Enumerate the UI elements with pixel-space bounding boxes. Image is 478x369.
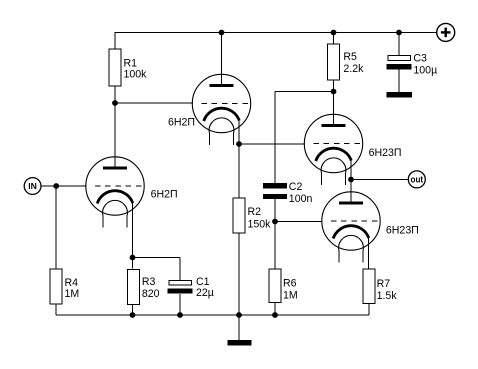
wire node D to tube U2a grid (239, 143, 305, 145)
wire R4 bottom lead (55, 304, 57, 315)
node R3 bottom junction (130, 312, 136, 318)
wire R1 top lead (114, 33, 116, 50)
svg-text:150k: 150k (248, 218, 272, 230)
wire node G to R3 top (132, 258, 134, 269)
wire R5 top lead (333, 33, 335, 45)
svg-text:1.5k: 1.5k (377, 290, 398, 302)
node A junction (112, 100, 118, 106)
triode U2a (6N23P section) (304, 114, 362, 185)
svg-text:2.2k: 2.2k (343, 63, 364, 75)
svg-text:out: out (411, 175, 424, 186)
wire R2 bottom to bottom rail (238, 233, 240, 315)
wire node B left to C2 branch (275, 91, 334, 93)
wire node E to out terminal (351, 179, 408, 181)
wire R6 bottom lead (274, 302, 276, 315)
wire C1 top lead (179, 258, 181, 281)
wire C2 bottom plate to node C (274, 199, 276, 222)
wire node D to R2 top (238, 144, 240, 198)
svg-text:6Н23П: 6Н23П (386, 225, 419, 237)
svg-text:22µ: 22µ (196, 287, 214, 299)
svg-text:100µ: 100µ (413, 64, 437, 76)
node D junction (236, 141, 242, 147)
node R6 bottom junction (272, 312, 278, 318)
resistor R3 (128, 270, 140, 305)
wire top rail V+ (115, 32, 438, 34)
node R5 top junction (331, 30, 337, 36)
resistor R1 (109, 49, 121, 86)
wire bottom rail (56, 314, 369, 316)
wire node A down to tube U1a anode (114, 103, 116, 168)
wire node F to tube U1a grid (56, 185, 86, 187)
capacitor C2 (263, 183, 287, 199)
svg-text:6Н23П: 6Н23П (369, 147, 402, 159)
wire R5 bottom lead to node B (333, 80, 335, 92)
wire R1 bottom lead to node A (114, 86, 116, 104)
wire node C down to R6 top (274, 222, 276, 270)
svg-text:1M: 1M (283, 289, 298, 301)
wire C3 bottom lead to ground (398, 70, 400, 92)
wire C1 bottom lead (179, 294, 181, 315)
svg-text:1M: 1M (65, 288, 80, 300)
node U1b anode junction (219, 30, 225, 36)
terminal IN (24, 178, 41, 195)
capacitor C3 (electrolytic) (387, 56, 412, 70)
wire C3 top lead (398, 33, 400, 56)
svg-text:R6: R6 (283, 278, 297, 290)
wire tube U2a cathode lead to node E (350, 161, 352, 180)
svg-text:R3: R3 (142, 276, 156, 288)
wire node A to tube U1b grid (115, 102, 193, 104)
wire ground stem (238, 315, 240, 340)
wire tube U1b cathode lead to node D (238, 120, 240, 144)
resistor R2 (233, 198, 245, 233)
wire node E down to tube U2b anode (350, 180, 352, 204)
wire node G right to C1 (133, 257, 181, 259)
wire node F down to R4 top (55, 186, 57, 269)
ground bar main (228, 340, 252, 346)
wire in terminal to node F (41, 185, 56, 187)
node C3 top junction (396, 30, 402, 36)
capacitor C1 (electrolytic) (168, 280, 193, 293)
resistor R7 (363, 269, 375, 304)
triode U1a (6N2P section) (86, 157, 144, 228)
resistor R5 (327, 44, 339, 80)
node E junction (348, 177, 354, 183)
svg-text:6Н2П: 6Н2П (151, 188, 178, 200)
wire tube U2b cathode lead to R7 top (368, 238, 370, 269)
terminal OUT (408, 171, 425, 188)
node F junction (53, 183, 59, 189)
svg-text:R5: R5 (343, 51, 357, 63)
wire node C to tube U2b grid (275, 221, 322, 223)
triode U2b (6N23P section) (322, 192, 380, 263)
svg-text:820: 820 (142, 288, 160, 300)
node ground junction (236, 312, 242, 318)
terminal V+ (437, 23, 455, 41)
wire tube U2a anode lead (333, 92, 335, 127)
svg-text:IN: IN (28, 181, 37, 191)
svg-text:100k: 100k (124, 69, 148, 81)
node C1 bottom junction (177, 312, 183, 318)
resistor R6 (269, 269, 281, 303)
svg-text:C2: C2 (289, 181, 303, 193)
node G junction (130, 255, 136, 261)
svg-text:R2: R2 (248, 206, 262, 218)
svg-text:100n: 100n (289, 193, 313, 205)
wire tube U1b anode lead to top rail (221, 33, 223, 87)
wire R7 bottom lead (368, 304, 370, 316)
wire down to C2 top plate (274, 92, 276, 184)
wire R3 bottom lead (132, 305, 134, 316)
wire tube U1a cathode lead to node G (132, 203, 134, 258)
node C junction (272, 219, 278, 225)
svg-text:6Н2П: 6Н2П (168, 116, 195, 128)
ground bar below C3 (386, 92, 412, 98)
svg-text:R7: R7 (377, 278, 391, 290)
node B junction (331, 89, 337, 95)
resistor R4 (50, 269, 62, 304)
svg-text:C3: C3 (413, 52, 427, 64)
triode U1b (6N2P section) (192, 74, 250, 145)
